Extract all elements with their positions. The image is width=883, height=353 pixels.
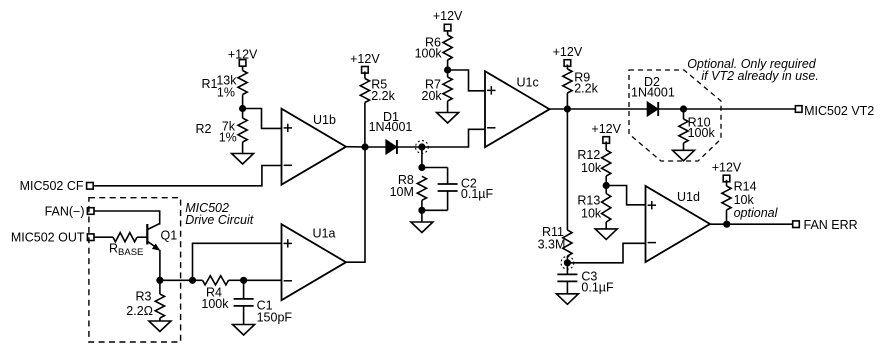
wire emitter node to R4 [160,279,193,281]
svg-text:R13: R13 [577,193,600,207]
resistor R8 [417,176,426,200]
node R1/R2 divider junction [239,105,246,112]
ground (R2) [232,154,254,165]
wire MIC502 OUT to RBASE [94,236,113,238]
svg-text:2.2Ω: 2.2Ω [126,304,153,318]
svg-text:10k: 10k [734,193,755,207]
svg-text:0.1µF: 0.1µF [581,281,614,295]
wire R1-R2 [242,95,244,119]
wire U1d output [710,223,727,225]
wire FAN(-) to Q1 collector [94,211,160,225]
wire C2 bottom to R8 bottom [422,209,448,211]
wire divider to U1b + input [243,109,282,129]
terminal MIC502 CF [87,183,94,190]
ground (R13) [595,229,617,240]
wire RBASE to Q1 base [137,236,147,238]
wire C3-ground [566,281,568,293]
transistor Q1 [147,223,160,250]
capacitor C1 [234,299,254,306]
resistor R9 [563,69,572,93]
wire MIC502 CF to U1b - input [93,166,281,186]
wire C2 top stem [447,168,449,185]
power +12V (R1 rail) [228,48,258,67]
svg-text:1%: 1% [217,86,235,100]
svg-text:MIC502 CF: MIC502 CF [20,179,84,193]
svg-text:+12V: +12V [433,9,463,23]
svg-text:MIC502 VT2: MIC502 VT2 [804,104,874,118]
svg-text:U1b: U1b [313,113,336,127]
svg-text:+12V: +12V [591,122,621,136]
op-amp U1c [485,71,550,147]
svg-text:100k: 100k [201,297,229,311]
svg-text:1%: 1% [219,131,237,145]
svg-text:R14: R14 [734,179,757,193]
resistor R5 [360,79,369,103]
svg-text:R1: R1 [202,77,218,91]
node D2/R10 junction [680,105,687,112]
wire R6-R7 [447,60,449,77]
wire node to U1d - input [567,243,645,262]
wire node to C3 [566,263,568,275]
wire to FAN ERR [727,223,793,225]
wire R14 top stub [726,180,728,186]
ground (R7) [437,113,459,124]
wire U1c output [550,108,568,110]
svg-text:100k: 100k [688,126,716,140]
wire node to C1 [243,280,245,299]
wire node to D1 anode [365,146,386,148]
ground (R8/C2) [411,222,433,233]
wire node to D2 anode [567,108,647,110]
wire U1a output to main node [346,147,365,262]
resistor R1 [238,71,247,95]
svg-text:1N4001: 1N4001 [631,86,675,100]
svg-text:MIC502 OUT: MIC502 OUT [11,231,85,245]
wire R4 left stub [193,279,203,281]
svg-text:RBASE: RBASE [109,242,143,259]
wire guarded node down to R8/C2 [421,147,423,168]
op-amp U1a [282,224,347,300]
resistor RBASE [113,233,137,242]
wire C2 bottom stem [447,191,449,210]
svg-text:Drive Circuit: Drive Circuit [185,213,254,227]
op-amp U1d [646,186,711,262]
svg-text:R2: R2 [196,122,212,136]
svg-text:150pF: 150pF [257,310,293,324]
wire D1 cathode to guarded node [398,146,422,148]
node U1a + tap [189,277,196,284]
svg-text:R12: R12 [577,148,600,162]
resistor R3 [155,294,164,318]
wire R1 top stub [242,66,244,70]
wire node down to R11 [566,109,568,230]
wire R8 bottom to ground [421,200,423,222]
svg-text:U1d: U1d [677,190,700,204]
wire R6 top stub [447,31,449,35]
diode D1 [386,140,397,154]
wire U1b output [346,146,365,148]
wire Q1 emitter down [159,250,161,280]
resistor R14 [722,186,731,210]
capacitor C2 [438,184,458,191]
resistor R2 [238,118,247,142]
wire R10-ground [683,143,685,150]
ground (R3) [149,321,171,332]
svg-text:FAN(−): FAN(−) [45,204,85,218]
resistor R7 [443,77,452,101]
terminal MIC502 VT2 [795,106,802,113]
dashed outline Optional region (D2/R10) [629,70,721,161]
resistor R10 [679,119,688,143]
svg-text:+12V: +12V [553,45,583,59]
wire to U1a - input [244,279,282,281]
node R8/C2 top [418,164,425,171]
terminal FAN ERR [793,221,800,228]
wire R5 top stub [364,71,366,78]
node R6/R7 junction [444,66,451,73]
terminal MIC502 OUT [87,234,94,241]
capacitor C3 [557,274,577,281]
wire R9 to node [566,93,568,109]
wire R7-ground [447,101,449,113]
power +12V (R14 rail) [712,161,742,182]
wire R12 top stub [605,141,607,150]
svg-text:2.2k: 2.2k [371,89,395,103]
svg-text:U1a: U1a [313,227,336,241]
wire guarded node to U1c - input [422,129,485,147]
wire D2 cathode to MIC502 VT2 [659,108,796,110]
wire R11 to node [566,256,568,263]
wire to U1a + input [193,243,282,280]
terminal FAN(-) [87,208,94,215]
wire R3-ground [159,318,161,321]
resistor R6 [443,35,452,60]
svg-text:optional: optional [734,206,779,220]
svg-text:Q1: Q1 [161,229,178,243]
node U1d out / R14 [723,221,730,228]
svg-text:0.1µF: 0.1µF [461,187,494,201]
wire R6/R7 to U1c + input [448,70,485,91]
power +12V (R5 rail) [350,52,380,73]
resistor R4 [203,276,229,285]
resistor R12 [602,150,611,176]
node R8/C2 bottom [418,207,425,214]
node main (U1b out / R5 / D1 / U1a out) [361,143,368,150]
svg-text:if VT2 already in use.: if VT2 already in use. [701,69,818,83]
svg-text:10M: 10M [390,185,414,199]
power +12V (R9 rail) [553,45,583,67]
wire C1-ground [243,306,245,325]
node U1c out / R9 / D2 / R11 [564,105,571,112]
wire R9 top stub [566,65,568,70]
diode D2 [648,102,659,116]
node C1 tap [240,277,247,284]
wire node to R3 [159,280,161,294]
node Q1 emitter junction [156,277,163,284]
wire R14 to node [726,210,728,224]
resistor R13 [602,194,611,223]
wire to C2 top [422,167,448,169]
svg-text:+12V: +12V [712,161,742,175]
svg-text:3.3M: 3.3M [538,237,566,251]
wire R13-ground [605,222,607,229]
wire R4 right stub [229,279,244,281]
node guarded (D1 cathode) with dashed guard ring [416,141,429,154]
svg-text:100k: 100k [415,47,443,61]
ground (C3) [556,294,578,305]
wire R12/R13 to U1d + input [606,186,645,205]
svg-text:2.2k: 2.2k [574,82,598,96]
svg-text:10k: 10k [581,161,602,175]
wire node to R10 [683,109,685,119]
svg-text:FAN ERR: FAN ERR [804,218,858,232]
resistor R11 [563,230,572,256]
wire R5 to main node [364,103,366,148]
power +12V (R6 rail) [433,9,463,31]
op-amp U1b [282,109,347,185]
node R12/R13 junction [603,182,610,189]
wire R2-ground [242,142,244,154]
power +12V (R12 rail) [591,122,621,143]
svg-text:R3: R3 [136,290,152,304]
svg-text:20k: 20k [422,89,443,103]
dashed box MIC502 Drive Circuit [89,198,181,342]
ground (C1) [233,325,255,336]
svg-text:U1c: U1c [517,76,539,90]
wire R12-R13 [605,176,607,194]
node R11/C3 with dashed guard ring [561,256,574,269]
svg-text:10k: 10k [581,206,602,220]
svg-text:+12V: +12V [350,52,380,66]
svg-text:1N4001: 1N4001 [369,120,413,134]
ground (R10) [673,150,695,161]
